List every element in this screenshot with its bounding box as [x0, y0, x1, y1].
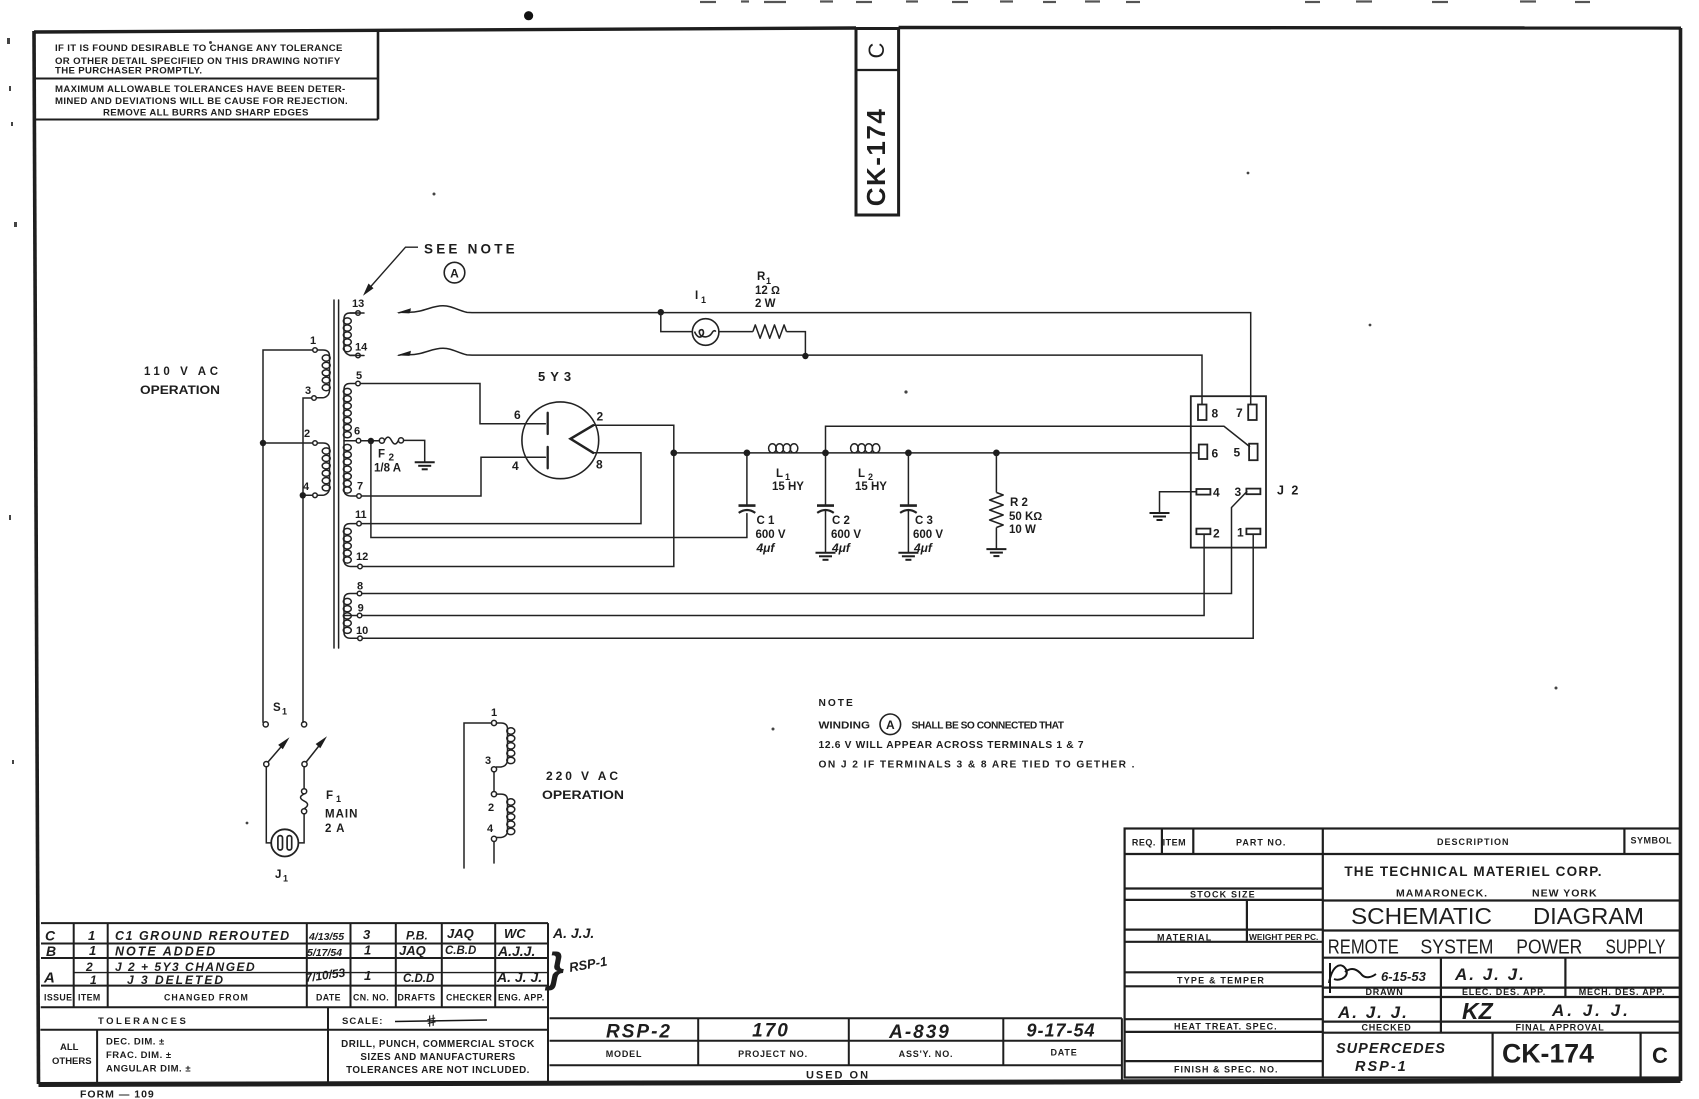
wire tube pin 2 to terminal 12 and B+ junction — [362, 425, 674, 566]
svg-text:2: 2 — [1213, 527, 1220, 541]
title block — [1125, 829, 1680, 1078]
svg-text:A: A — [886, 718, 895, 732]
wire J2 pin 3 to terminal 8 line — [362, 492, 1247, 594]
svg-text:6: 6 — [354, 426, 360, 438]
svg-text:A: A — [450, 266, 459, 280]
svg-text:ITEM: ITEM — [78, 993, 101, 1003]
svg-text:B: B — [46, 943, 56, 959]
svg-text:1: 1 — [491, 707, 497, 719]
svg-text:1: 1 — [310, 335, 316, 347]
primary winding 2-4 — [313, 441, 331, 498]
svg-text:2: 2 — [85, 960, 93, 974]
svg-text:SEE NOTE: SEE NOTE — [424, 242, 518, 257]
svg-text:ALL: ALL — [60, 1042, 79, 1053]
wire L1/L2 tap to J2 pin 5 — [826, 426, 1250, 453]
svg-text:A. J. J.: A. J. J. — [496, 969, 542, 985]
junction node L1-L2 — [822, 450, 829, 457]
svg-text:A: A — [43, 970, 55, 987]
svg-text:REMOTE: REMOTE — [1328, 937, 1399, 959]
svg-text:MAMARONECK.: MAMARONECK. — [1396, 888, 1488, 900]
wire S1 left to J1 — [266, 767, 271, 843]
svg-text:CHANGED FROM: CHANGED FROM — [164, 993, 249, 1003]
svg-text:OPERATION: OPERATION — [140, 385, 220, 397]
svg-text:C.B.D: C.B.D — [445, 945, 476, 957]
svg-text:CN. NO.: CN. NO. — [353, 993, 389, 1003]
svg-text:DATE: DATE — [316, 993, 341, 1003]
revision row B entries (handwritten) — [46, 943, 535, 960]
svg-text:STOCK SIZE: STOCK SIZE — [1190, 890, 1256, 900]
revision table — [40, 923, 548, 1083]
svg-text:ISSUE: ISSUE — [44, 993, 72, 1003]
wire terminal 3 to terminal 4 and S1 right — [303, 398, 312, 722]
svg-text:C 1: C 1 — [757, 515, 776, 527]
pin 5 — [1249, 444, 1258, 461]
ground (C2) — [816, 553, 836, 560]
arrowhead on line 13 — [397, 308, 412, 313]
junction node B+ takeoff — [670, 450, 677, 457]
svg-text:3: 3 — [305, 385, 311, 397]
wire terminal 7 to tube pin 4 — [361, 457, 545, 496]
svg-text:A.J.J.: A.J.J. — [497, 943, 535, 959]
tolerance notice box — [35, 31, 378, 120]
svg-text:170: 170 — [752, 1021, 790, 1042]
svg-text:J 2: J 2 — [1277, 484, 1300, 498]
svg-text:1: 1 — [90, 973, 97, 987]
wire B+ line to J2 pin 6 — [674, 452, 1198, 454]
wire terminal 6 to fuse F2 — [361, 440, 380, 442]
svg-text:P.B.: P.B. — [406, 929, 428, 943]
junction node terminal1/2 bus — [260, 440, 266, 446]
pin 2 — [1196, 529, 1210, 535]
winding 8-9-10 — [343, 591, 362, 640]
pin 6 — [1199, 445, 1208, 460]
svg-text:7: 7 — [357, 481, 363, 493]
node A (circled) — [444, 262, 465, 283]
ground (C3) — [898, 553, 918, 560]
svg-text:J 2 + 5Y3 CHANGED: J 2 + 5Y3 CHANGED — [115, 960, 256, 974]
svg-text:A. J.J.: A. J.J. — [552, 925, 594, 941]
svg-text:600 V: 600 V — [913, 529, 943, 541]
capacitor C1 600V 4uf — [739, 453, 756, 513]
svg-text:SYMBOL: SYMBOL — [1631, 836, 1673, 846]
pin 8 — [1198, 405, 1207, 421]
svg-text:8: 8 — [1212, 407, 1219, 421]
svg-text:WINDING: WINDING — [819, 721, 871, 732]
filament V (pins 2,8) — [571, 425, 594, 453]
svg-text:NOTE ADDED: NOTE ADDED — [115, 945, 217, 959]
svg-text:POWER: POWER — [1516, 937, 1582, 959]
svg-text:4μf: 4μf — [913, 541, 933, 555]
model / project / assy / date table — [550, 1018, 1122, 1083]
svg-text:1: 1 — [88, 928, 95, 943]
svg-text:CK-174: CK-174 — [1502, 1039, 1594, 1069]
svg-text:}: } — [544, 944, 564, 991]
svg-text:REQ.: REQ. — [1132, 838, 1156, 848]
wire S1 right to F1 — [303, 767, 305, 789]
svg-text:USED ON: USED ON — [806, 1070, 870, 1082]
junction node on line 13 — [658, 309, 664, 315]
svg-text:TOLERANCES ARE NOT INCLUDED: TOLERANCES ARE NOT INCLUDED. — [346, 1065, 530, 1076]
svg-text:SUPPLY: SUPPLY — [1606, 937, 1666, 959]
svg-text:3: 3 — [1235, 485, 1242, 499]
svg-text:HEAT TREAT. SPEC.: HEAT TREAT. SPEC. — [1174, 1022, 1278, 1032]
wire J2 pin 2 to terminal 9 line — [362, 534, 1204, 615]
svg-text:CK-174: CK-174 — [861, 108, 891, 207]
svg-text:ASS'Y. NO.: ASS'Y. NO. — [899, 1049, 954, 1059]
svg-text:4μf: 4μf — [831, 541, 851, 555]
svg-text:6: 6 — [514, 408, 521, 422]
arrowhead on line 14 — [397, 351, 412, 356]
node A reference (circled) in note — [880, 714, 901, 735]
svg-text:10: 10 — [356, 625, 368, 637]
svg-text:8: 8 — [596, 458, 603, 472]
connector J2 — [1191, 396, 1266, 547]
wire terminal 1 to S1 left — [263, 350, 313, 722]
svg-text:1: 1 — [364, 943, 371, 958]
resistor R1 12 ohm 2W — [753, 325, 787, 338]
svg-text:15 HY: 15 HY — [772, 481, 804, 493]
svg-text:THE PURCHASER PROMPTLY.: THE PURCHASER PROMPTLY. — [55, 66, 202, 77]
svg-text:ITEM: ITEM — [1163, 838, 1187, 848]
svg-text:PROJECT NO.: PROJECT NO. — [738, 1049, 808, 1059]
pin 4 — [1196, 489, 1210, 495]
svg-text:12: 12 — [356, 551, 368, 563]
svg-text:10 W: 10 W — [1009, 524, 1036, 536]
svg-text:MAIN: MAIN — [325, 809, 358, 821]
svg-text:4: 4 — [303, 481, 310, 493]
svg-text:R 2: R 2 — [1010, 497, 1028, 509]
drawn signature and date — [1329, 963, 1376, 993]
svg-text:DRAFTS: DRAFTS — [398, 993, 436, 1003]
svg-text:F: F — [326, 790, 333, 802]
svg-text:ELEC. DES. APP.: ELEC. DES. APP. — [1462, 987, 1546, 997]
wire lamp to R1 — [719, 331, 753, 333]
svg-text:5/17/54: 5/17/54 — [307, 947, 342, 959]
svg-text:5: 5 — [1234, 446, 1241, 460]
pin 1 — [1246, 529, 1260, 535]
svg-text:2 A: 2 A — [325, 823, 345, 835]
winding 11-12 — [343, 521, 362, 569]
svg-text:2: 2 — [304, 428, 310, 440]
svg-text:MODEL: MODEL — [606, 1049, 643, 1059]
svg-text:S: S — [273, 702, 281, 714]
svg-text:12 Ω: 12 Ω — [755, 285, 780, 297]
svg-text:4/13/55: 4/13/55 — [308, 931, 344, 943]
svg-text:L: L — [776, 468, 783, 480]
wire terminal 5 to tube pin 6 — [360, 384, 545, 424]
svg-text:C.D.D: C.D.D — [403, 973, 434, 985]
wire winding-A feed line to J2 pin 7 — [399, 306, 1251, 405]
svg-text:4: 4 — [512, 459, 519, 473]
svg-text:TYPE & TEMPER: TYPE & TEMPER — [1177, 976, 1265, 986]
svg-text:15 HY: 15 HY — [855, 481, 887, 493]
wire tube pin 8 to terminal 11 — [361, 453, 641, 524]
svg-text:12.6 V WILL APPEAR ACROSS: 12.6 V WILL APPEAR ACROSS TERMINALS 1 & … — [819, 740, 1084, 751]
svg-text:WC: WC — [504, 926, 526, 941]
junction node on line 14 — [802, 353, 808, 359]
220V winding (terminals 1,3,2,4) — [464, 720, 515, 868]
svg-text:F: F — [378, 449, 385, 461]
note text block — [819, 698, 1135, 771]
svg-text:5: 5 — [356, 370, 362, 382]
svg-text:4μf: 4μf — [756, 541, 776, 555]
winding 13-14 (winding A) — [343, 311, 360, 358]
junction node C1 — [744, 450, 751, 457]
svg-text:A-839: A-839 — [888, 1022, 951, 1043]
svg-text:1: 1 — [701, 295, 706, 305]
revision row C entries (handwritten) — [45, 925, 594, 944]
svg-text:600 V: 600 V — [831, 529, 861, 541]
svg-text:MECH. DES. APP.: MECH. DES. APP. — [1579, 987, 1666, 997]
svg-text:SHALL BE SO CONNECTED THAT: SHALL BE SO CONNECTED THAT — [912, 721, 1065, 732]
svg-text:14: 14 — [355, 342, 368, 354]
svg-text:OPERATION: OPERATION — [542, 788, 624, 802]
wire F1 to J1 — [298, 814, 304, 843]
wire J2 pin 1 to terminal 10 line — [362, 534, 1253, 638]
fuse F2 1/8A — [379, 438, 384, 443]
pin 3 — [1246, 489, 1260, 495]
plug J1 — [271, 829, 298, 856]
revision row A entries (handwritten) — [43, 960, 542, 987]
svg-text:ON J 2 IF TERMINALS 3: ON J 2 IF TERMINALS 3 & 8 ARE TIED TO GE… — [819, 760, 1135, 771]
svg-text:DEC. DIM. ±: DEC. DIM. ± — [106, 1037, 165, 1048]
transformer terminal number labels — [303, 298, 368, 637]
fuse F1 MAIN 2A — [302, 789, 307, 794]
svg-text:C: C — [1652, 1043, 1668, 1068]
plate bar pin 4 — [547, 447, 549, 468]
capacitor C3 600V 4uf — [900, 453, 917, 552]
svg-text:WEIGHT PER PC.: WEIGHT PER PC. — [1249, 932, 1318, 942]
svg-text:4: 4 — [1213, 486, 1220, 500]
wire winding-A feed line to J2 pin 8 — [399, 348, 1202, 404]
inductor L2 15HY — [851, 444, 859, 453]
J2 pin number labels — [1212, 406, 1245, 541]
svg-text:C: C — [864, 42, 889, 58]
svg-text:OTHERS: OTHERS — [52, 1056, 92, 1067]
svg-text:SIZES AND MANUFACTURERS: SIZES AND MANUFACTURERS — [360, 1052, 515, 1063]
svg-text:FINAL APPROVAL: FINAL APPROVAL — [1515, 1023, 1604, 1033]
primary winding 1-3 — [312, 348, 331, 401]
ground (R2) — [986, 549, 1006, 556]
svg-text:SUPERCEDES: SUPERCEDES — [1336, 1041, 1446, 1057]
svg-text:C 2: C 2 — [832, 515, 850, 527]
svg-text:DRAWN: DRAWN — [1366, 987, 1404, 997]
ground (after F2) — [415, 462, 435, 469]
junction node terminal3/4 bus — [300, 492, 306, 498]
scale handwritten entry — [395, 1020, 487, 1022]
svg-text:C: C — [45, 928, 56, 944]
wire junction to lamp I1 — [661, 312, 693, 331]
svg-text:2: 2 — [597, 410, 604, 424]
svg-text:1: 1 — [282, 707, 287, 717]
svg-text:A. J. J.: A. J. J. — [1551, 1001, 1631, 1020]
svg-text:SCHEMATIC: SCHEMATIC — [1351, 903, 1492, 929]
svg-text:KZ: KZ — [1462, 998, 1494, 1024]
svg-text:1: 1 — [364, 968, 371, 983]
pin 7 — [1248, 405, 1257, 421]
revision table headers — [44, 993, 545, 1003]
svg-text:DIAGRAM: DIAGRAM — [1533, 903, 1644, 929]
scan specks (decorative) — [524, 11, 533, 20]
wire terminal 13 stub — [350, 312, 364, 314]
svg-text:FORM — 109: FORM — 109 — [80, 1089, 155, 1099]
svg-text:9-17-54: 9-17-54 — [1026, 1021, 1095, 1041]
wire terminal 2 to junction — [263, 442, 313, 444]
svg-text:50 KΩ: 50 KΩ — [1009, 511, 1042, 523]
svg-text:4: 4 — [487, 823, 494, 835]
junction node C1 return tap — [368, 438, 374, 444]
transformer T1 core — [333, 300, 335, 648]
svg-text:ANGULAR DIM. ±: ANGULAR DIM. ± — [106, 1064, 191, 1075]
svg-text:FINISH & SPEC. NO.: FINISH & SPEC. NO. — [1174, 1065, 1279, 1075]
svg-text:MINED AND DEVIATIONS WILL BE C: MINED AND DEVIATIONS WILL BE CAUSE FOR R… — [55, 96, 348, 107]
svg-text:R: R — [757, 271, 766, 283]
svg-text:MATERIAL: MATERIAL — [1157, 933, 1212, 943]
svg-text:NEW YORK: NEW YORK — [1532, 888, 1598, 900]
svg-text:DATE: DATE — [1050, 1048, 1077, 1058]
wire J2 pin 4 to ground — [1160, 492, 1197, 513]
svg-text:NOTE: NOTE — [819, 698, 855, 709]
winding 5-6-7 — [343, 381, 361, 498]
svg-text:600 V: 600 V — [756, 529, 786, 541]
svg-text:CHECKED: CHECKED — [1361, 1023, 1411, 1033]
svg-text:5Y3: 5Y3 — [538, 369, 576, 384]
svg-text:A. J. J.: A. J. J. — [1454, 965, 1526, 984]
svg-text:FRAC. DIM. ±: FRAC. DIM. ± — [106, 1050, 172, 1061]
title block headers — [1132, 836, 1672, 1075]
svg-text:SCALE:: SCALE: — [342, 1016, 383, 1027]
ground (J2 pin 4) — [1150, 513, 1170, 520]
drawing number box CK-174 (top) — [856, 29, 899, 216]
svg-text:13: 13 — [352, 298, 364, 310]
svg-text:RSP-2: RSP-2 — [606, 1022, 672, 1043]
svg-text:SYSTEM: SYSTEM — [1420, 937, 1493, 959]
svg-text:ENG. APP.: ENG. APP. — [498, 993, 545, 1003]
svg-text:THE TECHNICAL MATERIEL CORP: THE TECHNICAL MATERIEL CORP. — [1344, 864, 1602, 879]
svg-text:C1 GROUND REROUTED: C1 GROUND REROUTED — [115, 929, 291, 943]
svg-text:3: 3 — [485, 755, 491, 767]
svg-text:6-15-53: 6-15-53 — [1381, 969, 1427, 984]
svg-text:J 3 DELETED: J 3 DELETED — [127, 973, 225, 987]
svg-text:1: 1 — [1237, 526, 1244, 540]
capacitor C2 600V 4uf — [817, 453, 834, 552]
svg-text:8: 8 — [357, 581, 363, 593]
drill punch note — [341, 1039, 535, 1076]
svg-text:2 W: 2 W — [755, 298, 776, 310]
svg-text:CHECKER: CHECKER — [446, 993, 493, 1003]
column labels — [606, 1048, 1078, 1060]
inductor L1 15HY — [769, 444, 777, 453]
switch S1 — [263, 722, 324, 767]
svg-text:RSP-1: RSP-1 — [1355, 1059, 1408, 1075]
junction node C3 — [905, 450, 912, 457]
svg-text:11: 11 — [355, 509, 367, 521]
svg-text:9: 9 — [358, 603, 364, 615]
wire C1 return (C1 ground rerouted) — [371, 441, 747, 538]
svg-text:JAQ: JAQ — [399, 943, 426, 958]
svg-text:L: L — [858, 468, 865, 480]
wire R1 to line 14 — [787, 332, 806, 356]
svg-text:DRILL, PUNCH, COMMERCIAL STOCK: DRILL, PUNCH, COMMERCIAL STOCK — [341, 1039, 535, 1050]
lamp I1 — [692, 319, 719, 346]
svg-text:PART NO.: PART NO. — [1236, 838, 1286, 848]
plate bar pin 6 — [547, 413, 549, 434]
svg-text:1/8 A: 1/8 A — [374, 463, 401, 475]
rectifier tube 5Y3 — [522, 402, 599, 479]
svg-text:1: 1 — [336, 794, 341, 804]
SEE NOTE leader arrow — [366, 247, 419, 292]
sheet border frame (decorative) — [34, 31, 39, 1084]
wire F2 to ground — [404, 440, 425, 461]
svg-text:1: 1 — [283, 874, 288, 884]
svg-text:A. J. J.: A. J. J. — [1337, 1003, 1409, 1022]
svg-text:7: 7 — [1236, 406, 1243, 420]
svg-text:J: J — [275, 869, 281, 881]
svg-text:IF IT IS FOUND DESIRABLE TO C: IF IT IS FOUND DESIRABLE TO CHANGE ANY T… — [55, 43, 343, 54]
junction node R2 — [993, 450, 1000, 457]
svg-text:1: 1 — [89, 943, 96, 958]
svg-text:JAQ: JAQ — [447, 926, 474, 941]
svg-text:DESCRIPTION: DESCRIPTION — [1437, 837, 1510, 847]
svg-text:2: 2 — [488, 802, 494, 814]
svg-text:C 3: C 3 — [915, 515, 933, 527]
svg-text:3: 3 — [363, 927, 371, 942]
svg-text:I: I — [695, 290, 698, 302]
svg-text:MAXIMUM ALLOWABLE TOLERANCES H: MAXIMUM ALLOWABLE TOLERANCES HAVE BEEN D… — [55, 84, 346, 95]
wire terminal 14 stub — [350, 355, 364, 357]
resistor R2 50K 10W — [990, 453, 1004, 549]
svg-text:TOLERANCES: TOLERANCES — [98, 1016, 188, 1027]
svg-text:6: 6 — [1212, 447, 1219, 461]
svg-text:REMOVE ALL BURRS AND SHARP ED: REMOVE ALL BURRS AND SHARP EDGES — [103, 108, 309, 119]
